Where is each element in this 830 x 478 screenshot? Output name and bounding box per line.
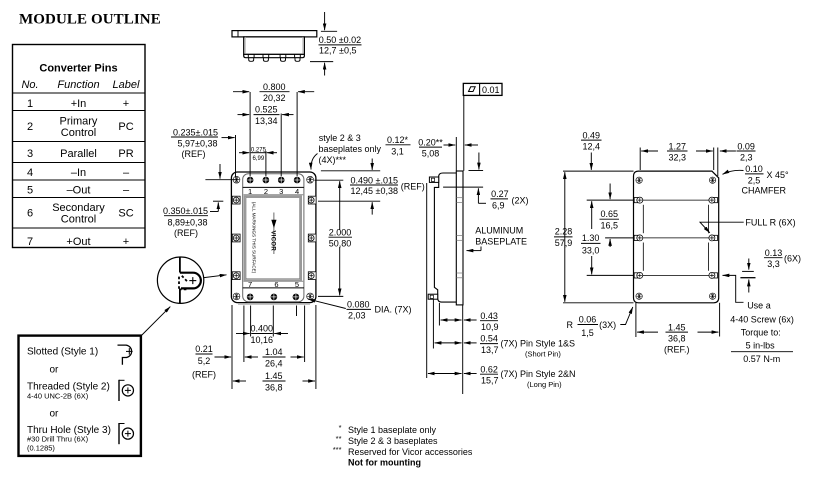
dim 0.09 / 2,3 xyxy=(720,141,756,162)
svg-text:0.57 N-m: 0.57 N-m xyxy=(743,354,780,364)
label ALUMINUM BASEPLATE with leader xyxy=(467,225,528,250)
svg-text:style 2 & 3: style 2 & 3 xyxy=(319,133,361,143)
svg-text:(6X): (6X) xyxy=(784,254,801,264)
rear view side screws xyxy=(634,197,643,203)
svg-text:1.04: 1.04 xyxy=(265,347,283,357)
svg-text:2,03: 2,03 xyxy=(348,311,366,321)
svg-text:1.27: 1.27 xyxy=(669,141,687,151)
svg-text:Primary: Primary xyxy=(60,116,98,128)
svg-text:(REF): (REF) xyxy=(401,182,425,192)
svg-text:1: 1 xyxy=(27,98,33,110)
svg-text:3: 3 xyxy=(279,187,283,196)
dim 0.400 / 10,16 xyxy=(236,324,288,345)
svg-text:5 in-lbs: 5 in-lbs xyxy=(746,340,776,350)
svg-text:0.20**: 0.20** xyxy=(418,137,443,147)
slotted style icon xyxy=(118,345,133,365)
footnotes xyxy=(333,423,473,467)
ext lines left of rear view xyxy=(563,171,634,303)
svg-text:10,9: 10,9 xyxy=(481,322,499,332)
svg-text:0.62: 0.62 xyxy=(480,364,498,374)
svg-text:0.12*: 0.12* xyxy=(387,135,409,145)
ext lines below side view xyxy=(427,183,463,394)
svg-text:2.28: 2.28 xyxy=(555,227,573,237)
svg-text:(REF.): (REF.) xyxy=(664,344,690,354)
svg-text:(7X) Pin Style 1&S: (7X) Pin Style 1&S xyxy=(501,338,576,348)
dim 0.13 / 3,3 (6X) screw protrusion xyxy=(740,248,801,293)
svg-text:26,4: 26,4 xyxy=(265,358,283,368)
svg-text:57,9: 57,9 xyxy=(555,238,573,248)
svg-text:SC: SC xyxy=(118,208,133,220)
svg-text:8,89±0,38: 8,89±0,38 xyxy=(168,217,208,227)
corner screws front view (4X) xyxy=(233,176,240,183)
svg-text:(Short Pin): (Short Pin) xyxy=(525,349,561,358)
svg-text:MODULE OUTLINE: MODULE OUTLINE xyxy=(19,12,161,28)
dim 0.49 / 12,4 xyxy=(581,130,602,170)
svg-text:32,3: 32,3 xyxy=(669,153,687,163)
svg-text:Use a: Use a xyxy=(747,301,771,311)
svg-text:13,34: 13,34 xyxy=(255,116,278,126)
ext lines below front view xyxy=(232,305,316,389)
dim 0.62 / 15,7 pin style 2&N xyxy=(428,364,576,389)
svg-text:baseplates only: baseplates only xyxy=(319,144,382,154)
svg-text:+In: +In xyxy=(71,98,87,110)
svg-text:1: 1 xyxy=(248,187,252,196)
converter pins table xyxy=(13,45,146,249)
svg-text:6,9: 6,9 xyxy=(492,201,505,211)
dims 0.12* / 0.20** (baseplate thickness) xyxy=(386,135,479,171)
svg-text:1.30: 1.30 xyxy=(582,233,600,243)
svg-text:2,5: 2,5 xyxy=(748,175,761,185)
svg-text:or: or xyxy=(50,365,60,376)
svg-text:–Out: –Out xyxy=(67,185,91,197)
svg-text:5,97±0,38: 5,97±0,38 xyxy=(178,139,218,149)
svg-text:1.45: 1.45 xyxy=(265,371,283,381)
svg-text:0.01: 0.01 xyxy=(482,85,500,95)
note: style 2 & 3 baseplates only (4X)*** xyxy=(311,133,382,170)
dim 0.50 +-0.02 (module height) xyxy=(310,12,362,76)
svg-text:5,2: 5,2 xyxy=(198,356,211,366)
thru hole style icon xyxy=(119,423,134,444)
dim 0.235 +-.015 (REF) xyxy=(171,127,236,177)
svg-text:0.50 ±0.02: 0.50 ±0.02 xyxy=(319,35,361,45)
svg-text:6,99: 6,99 xyxy=(253,156,265,162)
dim 0.490 +-.015 (REF) right xyxy=(318,159,425,215)
svg-text:+: + xyxy=(123,98,129,110)
svg-text:Converter Pins: Converter Pins xyxy=(39,63,117,75)
Vicor logo (rotated) with arrow xyxy=(269,213,276,255)
svg-text:0.09: 0.09 xyxy=(737,141,755,151)
svg-text:3,1: 3,1 xyxy=(391,146,404,156)
svg-text:CHAMFER: CHAMFER xyxy=(742,186,787,196)
svg-text:16,5: 16,5 xyxy=(601,221,619,231)
svg-text:Slotted (Style 1): Slotted (Style 1) xyxy=(27,347,98,358)
svg-text:10,16: 10,16 xyxy=(251,335,274,345)
svg-text:(REF): (REF) xyxy=(192,370,216,380)
svg-text:36,8: 36,8 xyxy=(668,334,686,344)
svg-text:(2X): (2X) xyxy=(512,196,529,206)
pins on top side view xyxy=(248,54,300,61)
dim 0.10 / 2,5 X 45 CHAMFER xyxy=(723,164,790,196)
dim 1.27 / 32,3 xyxy=(640,141,718,176)
svg-text:4: 4 xyxy=(27,167,33,179)
svg-text:#30 Drill Thru (6X): #30 Drill Thru (6X) xyxy=(27,434,89,443)
svg-text:0.49: 0.49 xyxy=(583,130,601,140)
svg-text:0.06: 0.06 xyxy=(579,314,597,324)
svg-text:20,32: 20,32 xyxy=(263,93,286,103)
svg-text:0.13: 0.13 xyxy=(765,248,783,258)
detail circle (screw slot detail) xyxy=(157,257,203,303)
svg-text:(7X) Pin Style 2&N: (7X) Pin Style 2&N xyxy=(501,369,576,379)
rear view corner screws xyxy=(636,177,642,183)
svg-text:***: *** xyxy=(333,445,342,454)
styles box xyxy=(19,336,141,456)
svg-text:36,8: 36,8 xyxy=(265,382,283,392)
svg-text:0.10: 0.10 xyxy=(745,164,763,174)
svg-text:(0.1285): (0.1285) xyxy=(27,443,55,452)
svg-text:Secondary: Secondary xyxy=(52,202,105,214)
svg-text:Control: Control xyxy=(61,127,96,139)
svg-text:(3X): (3X) xyxy=(599,320,616,330)
svg-text:12,7 ±0,5: 12,7 ±0,5 xyxy=(319,46,356,56)
svg-text:+Out: +Out xyxy=(66,236,90,248)
svg-text:**: ** xyxy=(336,434,342,443)
svg-text:0.400: 0.400 xyxy=(251,324,274,334)
dim 0.800 / 20,32 xyxy=(233,82,314,103)
svg-text:12,45 ±0,38: 12,45 ±0,38 xyxy=(351,186,398,196)
svg-text:VICOR: VICOR xyxy=(269,231,275,252)
leader from detail circle to side screw xyxy=(204,275,227,278)
svg-text:Parallel: Parallel xyxy=(60,148,97,160)
svg-text:5,08: 5,08 xyxy=(422,149,440,159)
svg-text:1.45: 1.45 xyxy=(668,322,686,332)
dim 0.525 / 13,34 xyxy=(238,105,294,126)
svg-text:Label: Label xyxy=(113,79,140,91)
svg-text:(ALL MARKINGS THIS SURFACE): (ALL MARKINGS THIS SURFACE) xyxy=(252,202,257,274)
leader FULL R (6X) xyxy=(700,218,796,233)
svg-text:0.350±.015: 0.350±.015 xyxy=(163,206,208,216)
svg-text:2.000: 2.000 xyxy=(329,227,352,237)
svg-text:ALUMINUM: ALUMINUM xyxy=(475,225,523,235)
svg-text:15,7: 15,7 xyxy=(481,376,499,386)
svg-text:4-40 UNC-2B (6X): 4-40 UNC-2B (6X) xyxy=(27,392,89,401)
svg-text:6: 6 xyxy=(27,208,33,220)
svg-text:4: 4 xyxy=(295,187,299,196)
dim 0.275 / 6,99 (small) xyxy=(239,147,277,162)
svg-text:R: R xyxy=(567,320,574,330)
svg-text:DIA. (7X): DIA. (7X) xyxy=(375,304,412,314)
svg-text:0.54: 0.54 xyxy=(480,334,498,344)
svg-text:Reserved for Vicor accessories: Reserved for Vicor accessories xyxy=(348,447,473,457)
svg-text:4-40 Screw (6x): 4-40 Screw (6x) xyxy=(730,314,794,324)
svg-text:*: * xyxy=(339,423,342,432)
svg-text:13,7: 13,7 xyxy=(481,345,499,355)
svg-text:0.235±.015: 0.235±.015 xyxy=(173,127,218,137)
svg-text:Not for mounting: Not for mounting xyxy=(348,457,421,467)
side view: aluminum baseplate plate xyxy=(456,171,463,305)
top pins 1-4 (front view) xyxy=(247,177,301,184)
svg-text:(REF): (REF) xyxy=(174,228,198,238)
dim 1.30 / 33,0 xyxy=(581,201,601,274)
svg-text:2: 2 xyxy=(27,121,33,133)
svg-text:+: + xyxy=(123,236,129,248)
svg-text:(REF): (REF) xyxy=(182,149,206,159)
side view: module body profile xyxy=(428,173,456,302)
svg-text:PR: PR xyxy=(118,148,133,160)
svg-text:0.27: 0.27 xyxy=(491,189,509,199)
svg-text:No.: No. xyxy=(21,79,38,91)
dim 0.21 / 5,2 (REF) xyxy=(192,344,231,380)
svg-text:Control: Control xyxy=(61,214,96,226)
svg-text:0.21: 0.21 xyxy=(195,344,213,354)
dim 2.000 / 50,80 xyxy=(314,180,352,296)
dim 0.65 / 16,5 xyxy=(600,184,620,248)
svg-text:2: 2 xyxy=(264,187,268,196)
svg-text:(4X)***: (4X)*** xyxy=(319,155,347,165)
leader from styles box to detail circle xyxy=(141,307,170,336)
svg-text:7: 7 xyxy=(27,236,33,248)
svg-text:Function: Function xyxy=(57,79,99,91)
svg-text:–: – xyxy=(123,167,130,179)
dim 1.04 / 26,4 xyxy=(245,347,304,368)
svg-text:1,5: 1,5 xyxy=(581,328,594,338)
dim 0.350 +-.015 (REF) left xyxy=(163,164,238,238)
svg-text:3: 3 xyxy=(27,148,33,160)
leader to Use a 4-40 screw note xyxy=(723,275,744,302)
svg-text:–: – xyxy=(123,185,130,197)
dim 0.27 / 6,9 (2X) xyxy=(443,153,528,211)
svg-text:Style 1 baseplate only: Style 1 baseplate only xyxy=(348,425,437,435)
top side view of module xyxy=(232,31,317,58)
torque note xyxy=(730,301,794,364)
label area on front view xyxy=(245,196,301,280)
ext lines above front view (pins 1-4) xyxy=(250,92,297,176)
svg-text:Torque to:: Torque to: xyxy=(741,327,781,337)
svg-text:0.525: 0.525 xyxy=(255,105,278,115)
svg-text:Style 2 & 3 baseplates: Style 2 & 3 baseplates xyxy=(348,436,438,446)
dim 1.45 / 36,8 xyxy=(233,371,315,392)
leader 0.080 DIA (7X) xyxy=(309,299,412,321)
rear baseplate view outline (chamfered top-right) xyxy=(634,171,719,303)
svg-text:2,3: 2,3 xyxy=(740,153,753,163)
svg-text:12,4: 12,4 xyxy=(583,142,601,152)
svg-text:PC: PC xyxy=(118,121,133,133)
front view module outline xyxy=(231,172,316,304)
threaded style icon xyxy=(119,380,134,401)
svg-text:33,0: 33,0 xyxy=(582,245,600,255)
flatness feature control frame 0.01 xyxy=(463,83,502,170)
svg-text:3,3: 3,3 xyxy=(767,259,780,269)
svg-text:5: 5 xyxy=(27,185,33,197)
svg-text:0.65: 0.65 xyxy=(601,209,619,219)
dim 0.54 / 13,7 pin style 1&S xyxy=(435,334,575,359)
svg-text:0.490 ±.015: 0.490 ±.015 xyxy=(351,175,398,185)
side screw bosses front view (6X) xyxy=(232,196,240,204)
svg-text:0.800: 0.800 xyxy=(263,82,286,92)
dim 1.45 / 36,8 (REF.) rear view xyxy=(636,303,720,355)
svg-text:(Long Pin): (Long Pin) xyxy=(527,380,562,389)
dim 0.43 / 10,9 xyxy=(441,311,499,332)
svg-text:BASEPLATE: BASEPLATE xyxy=(475,236,527,246)
dim R 0.06 / 1,5 (3X) corner radius xyxy=(567,307,633,338)
svg-text:0.43: 0.43 xyxy=(480,311,498,321)
dim 2.28 / 57,9 xyxy=(554,172,573,302)
svg-text:or: or xyxy=(50,409,60,420)
svg-text:50,80: 50,80 xyxy=(329,238,352,248)
svg-text:–In: –In xyxy=(71,167,86,179)
svg-text:0.080: 0.080 xyxy=(347,300,370,310)
bottom pins 7,6,5 (front view) xyxy=(247,294,299,301)
svg-text:FULL R (6X): FULL R (6X) xyxy=(745,218,795,228)
svg-text:X 45°: X 45° xyxy=(767,170,790,180)
